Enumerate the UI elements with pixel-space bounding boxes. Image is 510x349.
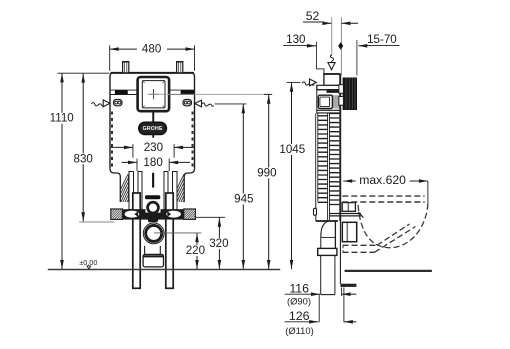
- svg-text:830: 830: [74, 152, 93, 165]
- svg-text:(Ø110): (Ø110): [285, 325, 313, 336]
- svg-text:52: 52: [306, 9, 320, 23]
- svg-text:130: 130: [286, 33, 305, 46]
- svg-text:230: 230: [144, 141, 163, 154]
- svg-text:max.620: max.620: [359, 173, 406, 187]
- svg-text:(Ø90): (Ø90): [287, 295, 311, 306]
- svg-text:320: 320: [209, 237, 228, 250]
- svg-text:1045: 1045: [279, 143, 305, 156]
- svg-text:GROHE: GROHE: [143, 126, 163, 132]
- svg-text:1110: 1110: [50, 112, 74, 125]
- svg-text:945: 945: [234, 192, 253, 205]
- svg-text:480: 480: [142, 43, 161, 56]
- svg-text:990: 990: [257, 166, 276, 179]
- svg-text:220: 220: [186, 244, 205, 257]
- svg-text:15-70: 15-70: [367, 33, 397, 46]
- svg-text:126: 126: [289, 309, 310, 323]
- svg-text:180: 180: [143, 156, 162, 169]
- svg-text:116: 116: [289, 282, 309, 296]
